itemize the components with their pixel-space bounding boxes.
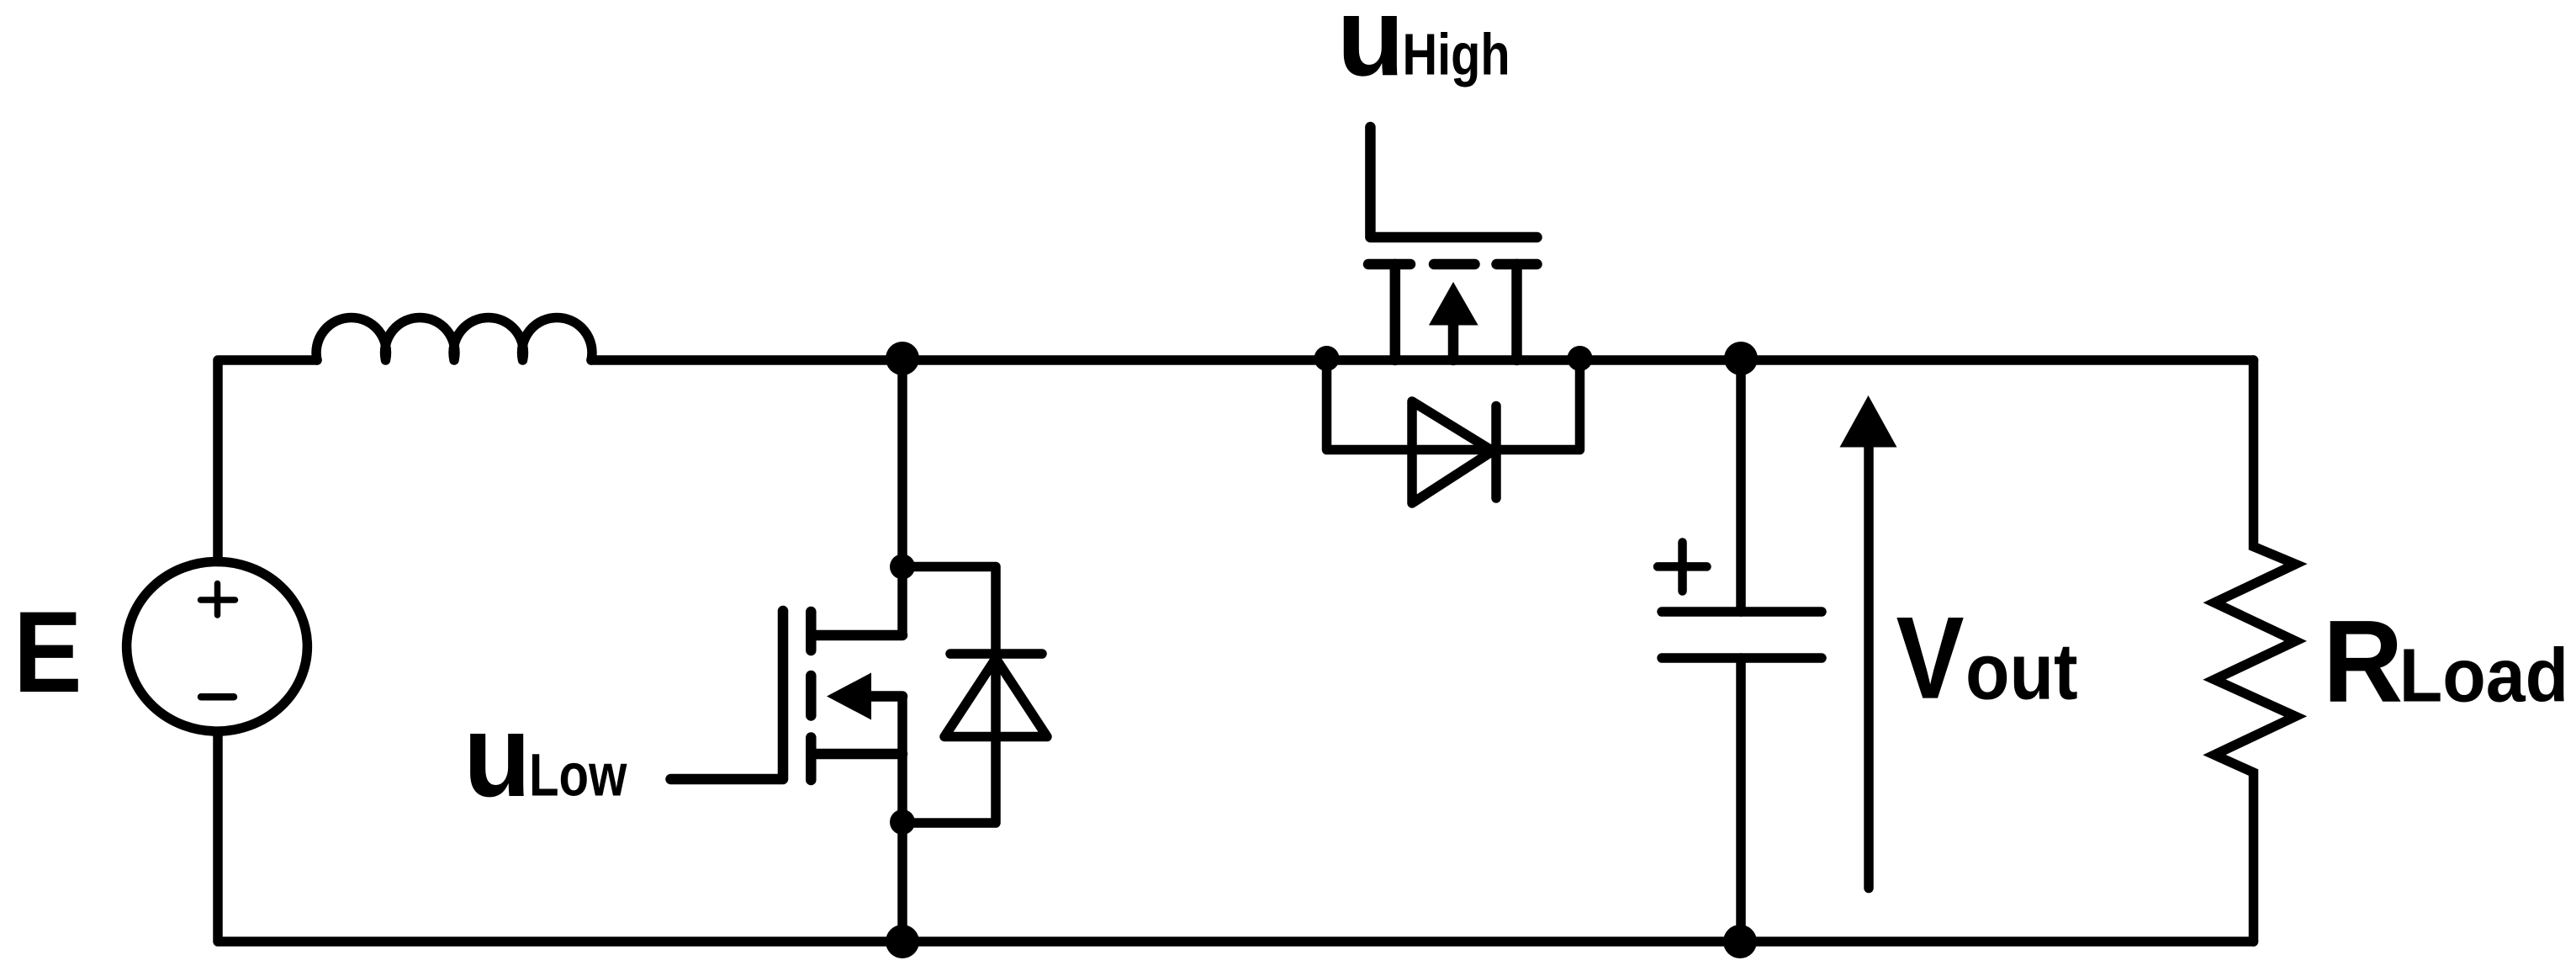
wire node B to node C (under Q2) <box>1327 355 1580 365</box>
wire bottom rail right <box>1740 937 2254 947</box>
node A junction dot <box>886 342 919 375</box>
label E <box>13 586 82 716</box>
wire E top lead to top-left corner <box>218 360 317 562</box>
junction dot Q1 source / D1 <box>890 809 915 835</box>
svg-text:High: High <box>1403 21 1510 88</box>
svg-text:E: E <box>13 586 82 716</box>
wire node C to node D <box>1580 355 1742 365</box>
svg-text:u: u <box>1337 0 1404 99</box>
capacitor C <box>1658 360 1822 942</box>
svg-text:Load: Load <box>2399 634 2568 718</box>
svg-text:R: R <box>2323 596 2403 727</box>
svg-text:V: V <box>1896 592 1965 723</box>
label R_Load <box>2323 596 2403 727</box>
junction dot bottom rail / C <box>1723 925 1757 958</box>
svg-text:u: u <box>463 689 531 821</box>
wire Q1 drain vertical <box>897 360 907 635</box>
inductor L <box>316 317 592 360</box>
wire bottom rail left and E bottom lead <box>218 731 902 942</box>
wire bottom rail middle <box>902 937 1740 947</box>
junction dot bottom rail / Q1 <box>886 925 919 958</box>
node C junction dot <box>1568 346 1593 371</box>
transistor Q1 (low-side MOSFET) <box>671 611 903 780</box>
label V_out <box>1896 592 1965 723</box>
label u_High <box>1337 0 1404 99</box>
svg-text:out: out <box>1965 628 2078 717</box>
wire node D to top-right corner <box>1741 355 2254 365</box>
diode D1 (body diode of Q1) <box>902 567 1047 824</box>
node D junction dot <box>1724 342 1758 375</box>
diode D2 (body diode of Q2) <box>1327 360 1580 503</box>
transistor Q2 (high-side MOSFET) <box>1368 127 1537 360</box>
label u_Low <box>463 689 531 821</box>
svg-text:Low: Low <box>529 741 627 809</box>
wire inductor to node A <box>591 355 902 365</box>
wire Q1 source vertical <box>897 697 907 942</box>
wire node A to node B <box>902 355 1327 365</box>
arrow V_out <box>1840 395 1897 889</box>
node B junction dot <box>1314 346 1340 371</box>
resistor R_Load <box>2214 360 2296 942</box>
voltage source E <box>127 562 308 732</box>
junction dot Q1 drain / D1 <box>890 554 915 580</box>
